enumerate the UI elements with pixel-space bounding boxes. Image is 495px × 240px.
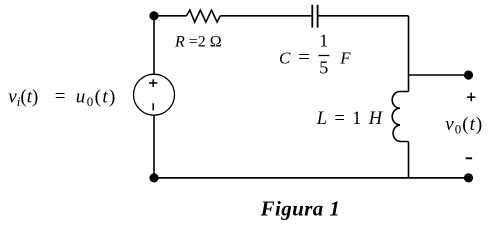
wire capacitor to right corner bbox=[318, 15, 408, 17]
voltage source minus tick bbox=[152, 103, 154, 110]
svg-text:5: 5 bbox=[319, 57, 328, 77]
svg-text:L = 1 H: L = 1 H bbox=[316, 109, 384, 129]
output minus polarity bbox=[466, 157, 472, 159]
svg-text:F: F bbox=[339, 49, 351, 68]
inductor L1 coil bbox=[392, 92, 408, 142]
svg-text:=: = bbox=[55, 86, 66, 107]
node output minus terminal bbox=[464, 173, 473, 182]
wire right vertical upper bbox=[408, 16, 410, 92]
wire output branch bbox=[409, 74, 469, 76]
wire left vertical upper bbox=[153, 16, 155, 74]
svg-text:Figura 1: Figura 1 bbox=[260, 197, 341, 221]
svg-text:vi(t): vi(t) bbox=[8, 87, 38, 109]
resistor R1 bbox=[186, 10, 220, 22]
svg-text:=: = bbox=[298, 47, 310, 69]
wire bottom bbox=[154, 177, 469, 179]
wire left vertical lower bbox=[153, 115, 155, 178]
node output plus terminal bbox=[464, 70, 473, 79]
svg-text:R =2 Ω: R =2 Ω bbox=[174, 34, 222, 51]
svg-text:1: 1 bbox=[319, 31, 328, 51]
voltage source V1 circle bbox=[134, 74, 175, 115]
wire resistor to capacitor bbox=[220, 15, 311, 17]
capacitor value fraction bar bbox=[319, 55, 330, 57]
output plus polarity bbox=[467, 96, 476, 98]
capacitor C1 left plate bbox=[311, 5, 313, 28]
svg-text:v0(t): v0(t) bbox=[445, 114, 483, 136]
node top-left bbox=[149, 11, 158, 20]
svg-text:C: C bbox=[279, 49, 291, 68]
voltage source plus sign bbox=[149, 82, 157, 84]
svg-text:u0(t): u0(t) bbox=[76, 87, 117, 109]
capacitor C1 right plate bbox=[317, 5, 319, 28]
wire right vertical lower bbox=[408, 142, 410, 179]
wire top-left horizontal bbox=[154, 15, 186, 17]
node bottom-left bbox=[149, 173, 158, 182]
